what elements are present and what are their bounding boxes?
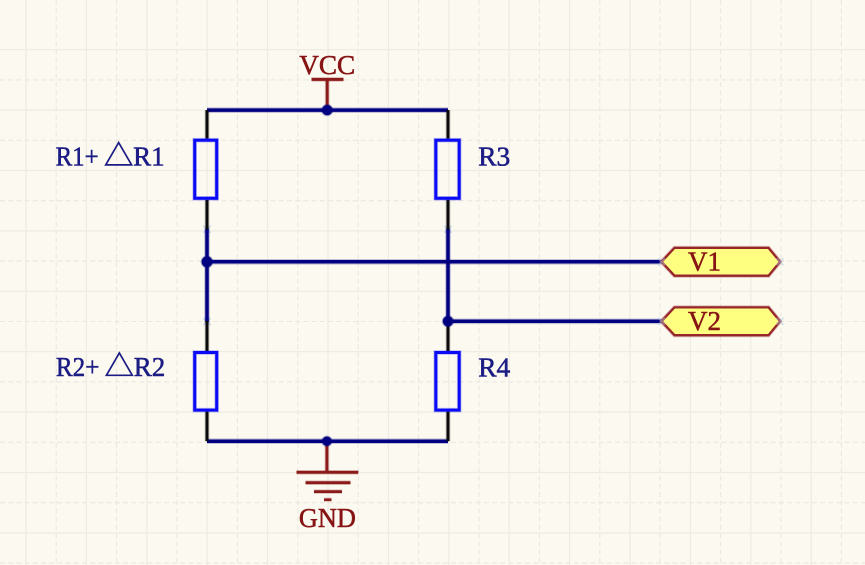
svg-text:GND: GND [299, 502, 356, 533]
svg-text:R1: R1 [133, 140, 165, 171]
svg-text:R3: R3 [478, 141, 510, 172]
svg-text:V1: V1 [688, 246, 721, 277]
svg-text:R4: R4 [478, 352, 510, 383]
svg-text:R2: R2 [134, 351, 166, 382]
svg-text:VCC: VCC [299, 49, 355, 80]
svg-text:R1+: R1+ [56, 140, 99, 171]
svg-text:R2+: R2+ [56, 351, 100, 382]
svg-text:V2: V2 [688, 305, 721, 336]
